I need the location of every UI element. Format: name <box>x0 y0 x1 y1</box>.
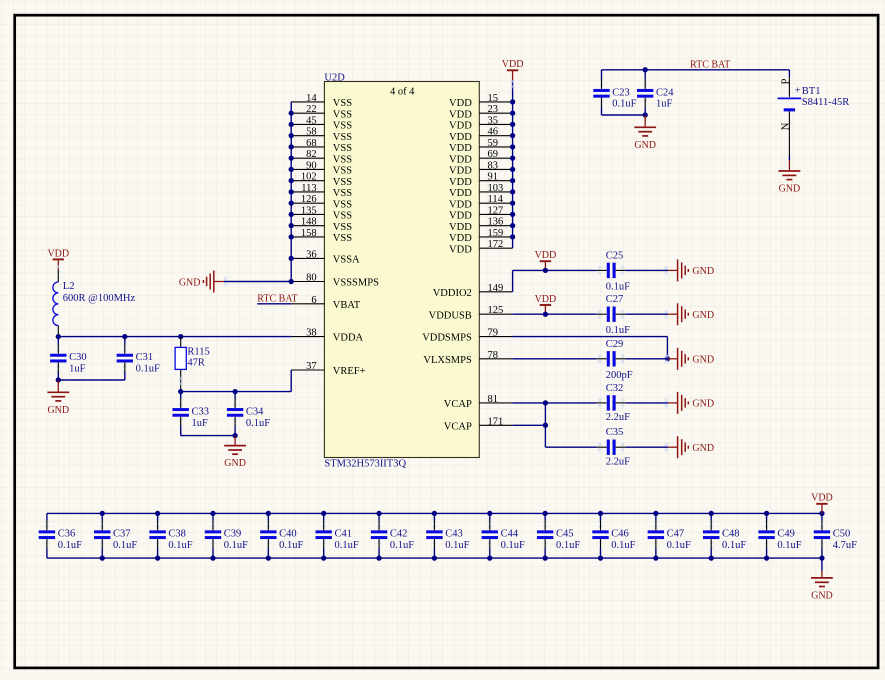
capacitor C47 0.1uF <box>648 513 691 558</box>
svg-text:0.1uF: 0.1uF <box>279 540 303 551</box>
svg-text:0.1uF: 0.1uF <box>136 364 160 375</box>
capacitor C41 0.1uF <box>316 513 359 558</box>
svg-text:BT1: BT1 <box>802 86 821 97</box>
capacitor C37 0.1uF <box>94 513 137 558</box>
svg-text:46: 46 <box>488 127 499 138</box>
pin 6 VBAT <box>291 295 361 311</box>
svg-text:82: 82 <box>306 149 317 160</box>
pin 15 VDD <box>449 93 513 109</box>
wire C50 to GND <box>821 558 823 571</box>
capacitor C46 0.1uF <box>592 513 635 558</box>
battery BT1 S8411-45R <box>778 70 850 156</box>
svg-text:C29: C29 <box>606 339 624 350</box>
svg-text:GND: GND <box>779 184 801 195</box>
junction <box>289 156 294 161</box>
svg-text:C35: C35 <box>606 427 624 438</box>
junction <box>510 156 515 161</box>
svg-text:C37: C37 <box>113 529 131 540</box>
svg-text:VDD: VDD <box>449 98 472 109</box>
svg-text:69: 69 <box>488 149 499 160</box>
junction <box>764 555 769 560</box>
svg-text:VDD: VDD <box>449 244 472 255</box>
junction <box>653 555 658 560</box>
svg-text:35: 35 <box>488 115 499 126</box>
pin 46 VDD <box>449 127 513 143</box>
svg-text:C48: C48 <box>722 529 740 540</box>
junction <box>155 511 160 516</box>
svg-text:VSS: VSS <box>333 154 352 165</box>
junction <box>510 133 515 138</box>
svg-text:VSS: VSS <box>333 121 352 132</box>
svg-text:VSS: VSS <box>333 143 352 154</box>
svg-text:VDD: VDD <box>449 109 472 120</box>
svg-text:C34: C34 <box>246 406 264 417</box>
junction <box>510 144 515 149</box>
svg-text:C45: C45 <box>556 529 574 540</box>
svg-text:0.1uF: 0.1uF <box>246 418 270 429</box>
pin 171 VCAP <box>444 416 513 432</box>
junction <box>764 511 769 516</box>
svg-text:90: 90 <box>306 160 317 171</box>
svg-text:158: 158 <box>301 228 317 239</box>
VDD power symbol <box>535 294 557 314</box>
svg-text:83: 83 <box>488 160 499 171</box>
wire GND to VSS bus <box>224 281 291 283</box>
GND power symbol <box>811 571 833 602</box>
svg-text:1uF: 1uF <box>192 418 209 429</box>
junction <box>510 234 515 239</box>
capacitor C35 2.2uF <box>597 427 630 467</box>
junction <box>543 312 548 317</box>
junction <box>432 511 437 516</box>
svg-text:VDD: VDD <box>47 248 69 259</box>
svg-text:6: 6 <box>311 295 316 306</box>
svg-text:58: 58 <box>306 127 317 138</box>
capacitor C43 0.1uF <box>426 513 469 558</box>
junction <box>266 511 271 516</box>
svg-text:200pF: 200pF <box>606 370 633 381</box>
GND earth symbol <box>665 259 714 281</box>
svg-text:0.1uF: 0.1uF <box>612 99 636 110</box>
svg-text:VDD: VDD <box>502 59 524 70</box>
svg-text:VDD: VDD <box>449 222 472 233</box>
pin 149 VDDIO2 <box>433 283 513 299</box>
GND earth symbol (VSSA/VSSSMPS) <box>179 271 224 293</box>
svg-text:2.2uF: 2.2uF <box>606 456 630 467</box>
junction <box>56 377 61 382</box>
capacitor C38 0.1uF <box>149 513 192 558</box>
junction <box>100 511 105 516</box>
capacitor C44 0.1uF <box>482 513 525 558</box>
junction <box>432 555 437 560</box>
pin 91 VDD <box>449 172 513 188</box>
svg-text:VDD: VDD <box>811 493 833 504</box>
junction <box>210 555 215 560</box>
svg-text:14: 14 <box>306 93 317 104</box>
svg-text:VDD: VDD <box>449 121 472 132</box>
pin 23 VDD <box>449 104 513 120</box>
svg-text:VSS: VSS <box>333 166 352 177</box>
wire VSS bus <box>290 102 292 282</box>
svg-text:78: 78 <box>488 350 499 361</box>
capacitor C30 1uF <box>50 337 87 380</box>
svg-text:VSS: VSS <box>333 199 352 210</box>
VDD power symbol <box>535 250 557 270</box>
pin 22 VSS <box>291 104 352 120</box>
svg-text:125: 125 <box>488 305 504 316</box>
junction <box>643 67 648 72</box>
pin 102 VSS <box>291 172 352 188</box>
wire VCAP2 net <box>513 403 669 447</box>
svg-text:VDD: VDD <box>449 211 472 222</box>
svg-text:4 of 4: 4 of 4 <box>390 87 415 98</box>
junction <box>289 189 294 194</box>
wire C33/C34 ground <box>181 435 235 437</box>
capacitor C39 0.1uF <box>205 513 248 558</box>
svg-text:126: 126 <box>301 194 317 205</box>
pin 35 VDD <box>449 115 513 131</box>
svg-text:81: 81 <box>488 394 499 405</box>
svg-text:VSS: VSS <box>333 132 352 143</box>
svg-text:VDD: VDD <box>449 177 472 188</box>
svg-text:VCAP: VCAP <box>444 421 472 432</box>
capacitor C31 0.1uF <box>117 337 160 380</box>
svg-text:VLXSMPS: VLXSMPS <box>423 355 472 366</box>
svg-text:37: 37 <box>306 361 317 372</box>
wire VDDIO2 net <box>513 270 669 291</box>
wire VDDUSB net <box>513 313 669 315</box>
svg-text:VSS: VSS <box>333 188 352 199</box>
wire VCAP1 net <box>513 402 669 404</box>
capacitor C50 4.7uF <box>814 513 857 558</box>
junction <box>178 389 183 394</box>
svg-text:C43: C43 <box>445 529 463 540</box>
op-amp U2D (IC STM32H573IIT3Q body) <box>324 82 479 458</box>
svg-text:45: 45 <box>306 115 317 126</box>
wire decoupling bottom bus <box>47 557 822 559</box>
svg-text:VDD: VDD <box>535 294 557 305</box>
pin 172 VDD <box>449 239 513 255</box>
svg-text:0.1uF: 0.1uF <box>722 540 746 551</box>
GND power symbol <box>634 115 656 151</box>
junction <box>289 122 294 127</box>
junction <box>289 234 294 239</box>
junction <box>510 167 515 172</box>
junction <box>510 122 515 127</box>
svg-text:GND: GND <box>692 443 714 454</box>
svg-text:0.1uF: 0.1uF <box>58 540 82 551</box>
svg-text:GND: GND <box>634 140 656 151</box>
wire C23/C24 ground <box>602 114 646 116</box>
svg-text:GND: GND <box>179 277 201 288</box>
svg-text:0.1uF: 0.1uF <box>667 540 691 551</box>
svg-text:22: 22 <box>306 104 317 115</box>
svg-text:C49: C49 <box>777 529 795 540</box>
svg-text:C25: C25 <box>606 250 624 261</box>
junction <box>510 201 515 206</box>
svg-text:C40: C40 <box>279 529 297 540</box>
pin 79 VDDSMPS <box>422 328 512 344</box>
svg-text:0.1uF: 0.1uF <box>168 540 192 551</box>
svg-text:36: 36 <box>306 249 317 260</box>
capacitor C42 0.1uF <box>371 513 414 558</box>
capacitor C36 0.1uF <box>39 513 82 558</box>
wire RTC BAT net <box>602 69 790 71</box>
junction <box>376 555 381 560</box>
pin 136 VDD <box>449 217 513 233</box>
junction <box>376 511 381 516</box>
wire decoupling top bus <box>47 512 822 514</box>
junction <box>543 400 548 405</box>
pin 45 VSS <box>291 115 352 131</box>
GND power symbol <box>224 436 246 470</box>
pin 58 VSS <box>291 127 352 143</box>
svg-text:+: + <box>795 86 801 97</box>
svg-text:VBAT: VBAT <box>333 300 361 311</box>
junction <box>289 133 294 138</box>
capacitor C29 200pF <box>597 339 633 381</box>
capacitor C48 0.1uF <box>703 513 746 558</box>
junction <box>155 555 160 560</box>
svg-text:S8411-45R: S8411-45R <box>802 97 849 108</box>
svg-text:GND: GND <box>811 591 833 602</box>
svg-text:GND: GND <box>692 310 714 321</box>
svg-text:N: N <box>780 122 791 130</box>
VDD power symbol <box>47 248 69 270</box>
junction <box>289 223 294 228</box>
svg-text:C36: C36 <box>58 529 76 540</box>
svg-text:0.1uF: 0.1uF <box>390 540 414 551</box>
svg-text:C32: C32 <box>606 383 624 394</box>
svg-text:59: 59 <box>488 138 499 149</box>
GND power symbol <box>779 160 801 194</box>
junction <box>510 111 515 116</box>
wire VLXSMPS net <box>513 358 669 360</box>
svg-text:VDD: VDD <box>535 250 557 261</box>
pin 135 VSS <box>291 205 352 221</box>
svg-text:VSSA: VSSA <box>333 255 360 266</box>
GND earth symbol <box>665 436 714 458</box>
pin 114 VDD <box>449 194 513 210</box>
svg-text:149: 149 <box>488 283 504 294</box>
svg-text:1uF: 1uF <box>656 99 673 110</box>
junction <box>122 334 127 339</box>
GND power symbol <box>47 380 69 416</box>
svg-text:C31: C31 <box>136 352 154 363</box>
junction <box>289 111 294 116</box>
svg-text:VDD: VDD <box>449 166 472 177</box>
svg-text:172: 172 <box>488 239 504 250</box>
junction <box>487 511 492 516</box>
svg-text:C23: C23 <box>612 87 630 98</box>
capacitor C24 1uF <box>637 70 674 115</box>
junction <box>289 144 294 149</box>
pin 14 VSS <box>291 93 352 109</box>
svg-text:135: 135 <box>301 205 317 216</box>
svg-text:VDDIO2: VDDIO2 <box>433 288 472 299</box>
junction <box>819 555 824 560</box>
svg-text:C44: C44 <box>501 529 519 540</box>
svg-text:0.1uF: 0.1uF <box>606 281 630 292</box>
svg-text:VSS: VSS <box>333 98 352 109</box>
junction <box>709 555 714 560</box>
pin 37 VREF+ <box>291 361 365 377</box>
junction <box>487 555 492 560</box>
junction <box>321 511 326 516</box>
svg-text:38: 38 <box>306 328 317 339</box>
wire VDDSMPS net <box>513 337 668 359</box>
capacitor C45 0.1uF <box>537 513 580 558</box>
junction <box>510 178 515 183</box>
svg-text:23: 23 <box>488 104 499 115</box>
svg-text:VDD: VDD <box>449 143 472 154</box>
pin 127 VDD <box>449 205 513 221</box>
junction <box>289 279 294 284</box>
svg-text:GND: GND <box>47 405 69 416</box>
svg-text:C41: C41 <box>335 529 353 540</box>
svg-text:1uF: 1uF <box>69 364 86 375</box>
svg-text:VDDA: VDDA <box>333 333 364 344</box>
svg-text:114: 114 <box>488 194 504 205</box>
svg-text:47R: 47R <box>187 358 205 369</box>
junction <box>653 511 658 516</box>
svg-text:15: 15 <box>488 93 499 104</box>
svg-text:RTC BAT: RTC BAT <box>257 293 297 304</box>
junction <box>510 189 515 194</box>
svg-text:127: 127 <box>488 205 504 216</box>
junction <box>643 112 648 117</box>
junction <box>56 334 61 339</box>
wire RTC BAT (VBAT) <box>257 303 291 305</box>
svg-text:4.7uF: 4.7uF <box>833 540 857 551</box>
svg-text:80: 80 <box>306 273 317 284</box>
svg-text:0.1uF: 0.1uF <box>606 325 630 336</box>
junction <box>232 433 237 438</box>
VDD power symbol <box>811 493 833 514</box>
svg-text:VDD: VDD <box>449 199 472 210</box>
svg-text:STM32H573IIT3Q: STM32H573IIT3Q <box>324 458 406 469</box>
junction <box>510 99 515 104</box>
svg-text:0.1uF: 0.1uF <box>556 540 580 551</box>
svg-text:VSS: VSS <box>333 222 352 233</box>
svg-text:171: 171 <box>488 416 504 427</box>
resistor R115 47R <box>175 337 210 392</box>
svg-text:C27: C27 <box>606 294 624 305</box>
pin 90 VSS <box>291 160 352 176</box>
svg-text:GND: GND <box>692 355 714 366</box>
junction <box>598 555 603 560</box>
svg-text:C47: C47 <box>667 529 685 540</box>
svg-text:136: 136 <box>488 217 504 228</box>
junction <box>510 223 515 228</box>
svg-text:C50: C50 <box>833 529 851 540</box>
svg-text:113: 113 <box>301 183 316 194</box>
svg-text:68: 68 <box>306 138 317 149</box>
svg-text:VDDUSB: VDDUSB <box>429 310 472 321</box>
svg-text:VDD: VDD <box>449 233 472 244</box>
svg-text:GND: GND <box>692 399 714 410</box>
pin 78 VLXSMPS <box>423 350 512 366</box>
svg-text:RTC BAT: RTC BAT <box>690 60 730 71</box>
svg-text:C30: C30 <box>69 352 87 363</box>
pin 113 VSS <box>291 183 352 199</box>
svg-text:VDD: VDD <box>449 188 472 199</box>
svg-text:C33: C33 <box>192 406 210 417</box>
pin 38 VDDA <box>291 328 363 344</box>
pin 69 VDD <box>449 149 513 165</box>
capacitor C33 1uF <box>173 392 210 436</box>
svg-text:0.1uF: 0.1uF <box>445 540 469 551</box>
junction <box>819 511 824 516</box>
capacitor C27 0.1uF <box>597 294 630 336</box>
svg-text:VSS: VSS <box>333 109 352 120</box>
capacitor C32 2.2uF <box>597 383 630 423</box>
svg-text:VSS: VSS <box>333 177 352 188</box>
GND earth symbol <box>665 392 714 414</box>
svg-text:GND: GND <box>224 458 246 469</box>
capacitor C49 0.1uF <box>758 513 801 558</box>
pin 125 VDDUSB <box>429 305 513 321</box>
svg-text:VDDSMPS: VDDSMPS <box>422 333 472 344</box>
svg-text:L2: L2 <box>63 281 75 292</box>
pin 59 VDD <box>449 138 513 154</box>
svg-text:P: P <box>780 78 791 84</box>
junction <box>543 423 548 428</box>
svg-text:91: 91 <box>488 172 499 183</box>
svg-text:VSS: VSS <box>333 211 352 222</box>
capacitor C34 0.1uF <box>227 392 270 436</box>
inductor L2 600R@100MHz <box>53 265 136 337</box>
svg-text:C38: C38 <box>168 529 186 540</box>
junction <box>542 511 547 516</box>
junction <box>178 334 183 339</box>
wire VDD bus <box>512 81 514 249</box>
svg-text:R115: R115 <box>187 347 209 358</box>
svg-text:103: 103 <box>488 183 504 194</box>
svg-text:0.1uF: 0.1uF <box>335 540 359 551</box>
GND earth symbol <box>665 348 714 370</box>
capacitor C23 0.1uF <box>593 70 636 115</box>
junction <box>100 555 105 560</box>
pin 68 VSS <box>291 138 352 154</box>
junction <box>289 201 294 206</box>
svg-text:79: 79 <box>488 328 499 339</box>
capacitor C25 0.1uF <box>597 250 630 292</box>
junction <box>321 555 326 560</box>
pin 103 VDD <box>449 183 513 199</box>
svg-text:C24: C24 <box>656 87 674 98</box>
junction <box>542 555 547 560</box>
junction <box>210 511 215 516</box>
svg-text:VDD: VDD <box>449 132 472 143</box>
svg-text:0.1uF: 0.1uF <box>611 540 635 551</box>
junction <box>289 167 294 172</box>
svg-text:159: 159 <box>488 228 504 239</box>
svg-text:0.1uF: 0.1uF <box>777 540 801 551</box>
pin 126 VSS <box>291 194 352 210</box>
capacitor C40 0.1uF <box>260 513 303 558</box>
pin 36 VSSA <box>291 249 360 265</box>
GND earth symbol <box>665 303 714 325</box>
pin 81 VCAP <box>444 394 513 410</box>
svg-text:148: 148 <box>301 217 317 228</box>
svg-text:GND: GND <box>692 266 714 277</box>
svg-text:0.1uF: 0.1uF <box>113 540 137 551</box>
wire VREF+ net <box>181 370 292 392</box>
pin 159 VDD <box>449 228 513 244</box>
junction <box>598 511 603 516</box>
svg-text:C46: C46 <box>611 529 629 540</box>
